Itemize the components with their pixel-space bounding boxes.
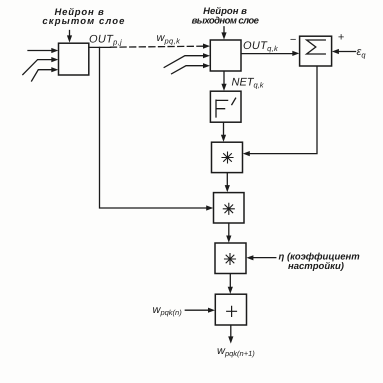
arrowhead OUT_qk into summer bbox=[292, 51, 299, 56]
svg-text:+: + bbox=[338, 32, 345, 44]
output-layer neuron box bbox=[210, 40, 241, 71]
arrowhead NET into F-prime bbox=[221, 84, 226, 91]
arrowhead X3 into adder bbox=[228, 287, 233, 294]
arrowhead epsilon into summer bbox=[332, 49, 339, 54]
wire X3 to adder bbox=[229, 274, 231, 288]
wire F-prime to X1 bbox=[223, 122, 225, 135]
multiplier block X3 bbox=[215, 243, 246, 274]
arrowhead X1 into X2 bbox=[225, 185, 230, 192]
arrowhead summer into X1 bbox=[243, 151, 250, 156]
wire X1 to X2 bbox=[226, 173, 228, 186]
arrowhead a3 bbox=[51, 67, 58, 72]
multiplier block X1 bbox=[212, 142, 243, 172]
wire NET_qk arrow output box to F-prime bbox=[223, 71, 225, 84]
svg-text:выходном слое: выходном слое bbox=[192, 15, 260, 26]
wire OUT_qk line to summer bbox=[241, 53, 293, 55]
wire w(n) input to adder bbox=[185, 309, 209, 311]
arrowhead F-prime into X1 bbox=[221, 135, 226, 142]
wire input arrow a2 to hidden box bbox=[23, 60, 52, 75]
wire input arrow b2 to output box bbox=[164, 56, 204, 68]
arrowhead a2 bbox=[51, 57, 58, 62]
wire epsilon input to summer bbox=[338, 51, 355, 53]
arrowhead adder output bbox=[228, 336, 233, 343]
hidden-layer neuron box bbox=[59, 43, 89, 75]
arrowhead eta into X3 bbox=[246, 255, 253, 260]
multiplier block X2 bbox=[214, 193, 245, 223]
wire label arrow into hidden box bbox=[69, 31, 71, 37]
wire input arrow a1 to hidden box bbox=[28, 50, 52, 52]
wire label arrow into output box bbox=[223, 27, 225, 33]
F-prime block U-F bbox=[210, 91, 241, 122]
svg-text:скрытом слое: скрытом слое bbox=[42, 16, 125, 27]
arrowhead X2 into X3 bbox=[226, 236, 231, 243]
wire input arrow a3 to hidden box bbox=[32, 70, 53, 81]
arrowhead a1 bbox=[51, 48, 58, 53]
arrowhead dashed weight into output box bbox=[203, 44, 210, 49]
wire summer output down and into X1 bbox=[249, 66, 317, 153]
wire OUT_pj line with dashed weight segment bbox=[89, 46, 111, 48]
arrowhead branch into X2 bbox=[206, 205, 213, 210]
arrowhead label into hidden box bbox=[67, 35, 72, 42]
wire input arrow b3 to output box bbox=[172, 66, 204, 74]
arrowhead label into output box bbox=[221, 32, 226, 39]
arrowhead w(n) into adder bbox=[208, 308, 215, 313]
adder block plus bbox=[215, 294, 246, 325]
summer block Sigma bbox=[300, 36, 332, 66]
wire eta input to X3 bbox=[253, 257, 276, 259]
arrowhead b3 bbox=[203, 63, 210, 68]
wire OUT_pj branch down and into X2 bbox=[100, 47, 208, 208]
arrowhead b2 bbox=[203, 53, 210, 58]
svg-text:−: − bbox=[290, 34, 297, 46]
wire X2 to X3 bbox=[228, 223, 230, 236]
svg-text:настройки): настройки) bbox=[288, 261, 344, 272]
wire adder output down bbox=[230, 325, 232, 337]
